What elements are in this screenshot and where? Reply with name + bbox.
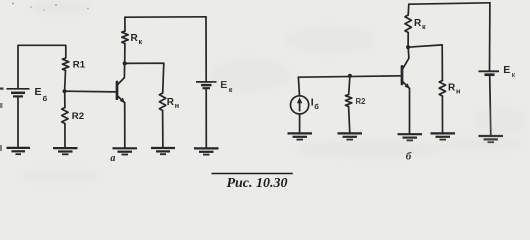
wire RK top to rail	[124, 17, 126, 31]
resistor RK (left)	[122, 31, 128, 44]
wire R2 top lead	[349, 76, 350, 95]
transistor VT1 emitter arrowhead	[120, 98, 125, 104]
svg-text:Рис. 10.30: Рис. 10.30	[226, 176, 287, 191]
ground under Ib	[288, 133, 313, 139]
svg-text:б: б	[43, 94, 48, 103]
svg-text:R: R	[131, 33, 139, 44]
current source Ib circle	[291, 96, 309, 114]
wire RH bottom to ground (b)	[441, 96, 443, 133]
wire collector node to RH (b)	[408, 45, 442, 81]
ground under R2 (a)	[53, 148, 78, 154]
wire R2 bottom to ground	[64, 124, 66, 148]
ground under Eb	[7, 148, 31, 154]
node collector junction dot (b)	[406, 45, 410, 49]
transistor VT2 emitter arrowhead	[405, 83, 410, 89]
resistor R2	[62, 108, 68, 124]
wire rail down to battery EK	[205, 17, 207, 82]
transistor VT1 emitter lead	[118, 96, 125, 102]
wire RK top to rail (b)	[407, 4, 410, 15]
svg-text:R: R	[448, 83, 456, 94]
wire base node to transistor base	[65, 90, 117, 93]
transistor VT2 collector lead	[403, 47, 409, 68]
transistor VT2 emitter lead	[403, 82, 410, 89]
wire collector node up to RK (b)	[407, 33, 409, 48]
caption rule	[212, 173, 293, 175]
svg-text:к: к	[512, 70, 516, 79]
svg-text:R2: R2	[356, 97, 367, 106]
resistor R2 (right)	[345, 95, 351, 107]
resistor RH (left)	[159, 93, 165, 111]
wire emitter to ground (b)	[409, 88, 411, 134]
ground under RH (b)	[431, 133, 456, 139]
wire R1 bottom to base node	[64, 71, 67, 92]
ground under RH (a)	[151, 148, 175, 154]
svg-text:б: б	[314, 102, 319, 111]
svg-text:E: E	[503, 64, 510, 76]
wire current source bottom to ground	[299, 114, 301, 133]
wire battery EK bottom to ground (b)	[490, 75, 491, 136]
wire RH bottom to ground	[162, 111, 164, 148]
wire collector node to RH (a)	[125, 63, 164, 93]
wire R2 bottom to ground	[349, 107, 350, 134]
wire emitter to ground	[124, 103, 126, 149]
wire battery EK bottom to ground	[205, 88, 207, 148]
wire battery Eb bottom to ground	[17, 97, 19, 148]
resistor RK (right)	[405, 15, 411, 33]
battery EK (left)	[196, 82, 217, 88]
transistor VT2 base bar	[401, 66, 404, 84]
battery EK (right)	[479, 71, 500, 74]
ground under emitter (a)	[113, 148, 138, 154]
wire base bus (b)	[298, 76, 401, 77]
transistor VT1 base bar	[116, 82, 119, 99]
svg-text:R: R	[167, 97, 175, 108]
svg-text:R1: R1	[73, 59, 86, 70]
svg-text:R2: R2	[72, 111, 84, 122]
resistor RH (right)	[439, 81, 445, 97]
scan smudges (decorative)	[15, 3, 525, 182]
svg-text:а: а	[110, 153, 115, 164]
wire down to current source top	[298, 77, 299, 96]
wire base node to R2 top	[64, 91, 66, 107]
svg-text:E: E	[35, 86, 42, 98]
wire top rail (b)	[409, 3, 490, 4]
wire battery Eb top to R1 top	[18, 45, 66, 88]
svg-text:к: к	[422, 22, 426, 31]
wire collector node up to RK	[124, 44, 126, 64]
ground under emitter (b)	[398, 134, 423, 140]
battery Eb	[7, 89, 30, 97]
svg-text:R: R	[414, 18, 422, 29]
current source Ib arrow	[299, 101, 301, 111]
node R2 top junction dot	[348, 74, 352, 78]
svg-text:к: к	[139, 37, 143, 46]
ground under EK (b)	[479, 136, 504, 142]
ground under EK (a)	[194, 148, 219, 154]
wire top rail (a)	[125, 16, 206, 18]
svg-text:н: н	[456, 87, 460, 96]
node base junction dot	[63, 89, 67, 93]
svg-text:н: н	[175, 101, 179, 110]
transistor VT1 collector lead	[118, 64, 125, 85]
ground under R2 (b)	[338, 133, 363, 139]
node collector junction dot	[123, 61, 127, 65]
edge marks (scan artifacts)	[0, 3, 89, 151]
wire rail down to battery EK (b)	[489, 3, 491, 71]
resistor R1	[62, 58, 68, 71]
